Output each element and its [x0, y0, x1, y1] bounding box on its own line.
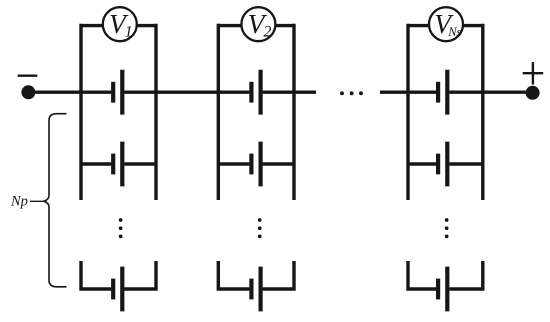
wire bottom stub right column 3	[449, 261, 483, 289]
wire main bus: cell B21 to ellipsis break	[263, 90, 316, 93]
wire right rail column 1	[154, 24, 157, 200]
wire left rail column 1	[79, 24, 82, 200]
battery cell B1Np	[113, 267, 122, 312]
voltmeter V1	[103, 7, 137, 41]
vertical dots column 3	[445, 218, 449, 238]
battery cell B11	[113, 70, 122, 115]
node positive terminal	[526, 86, 540, 100]
battery cell B32	[438, 142, 447, 187]
wire left rail column 3	[406, 24, 409, 200]
battery cell B22	[251, 142, 260, 187]
svg-text:2: 2	[263, 23, 271, 40]
wire main bus: cell B11 to cell B21	[124, 90, 249, 93]
wire row 2 column 3 left	[408, 162, 436, 165]
wire right rail column 2	[292, 24, 295, 200]
wire bottom stub left column 2	[218, 261, 249, 289]
wire top loop column 1	[81, 24, 156, 27]
wire row 2 column 2 right	[263, 162, 294, 165]
battery cell B31	[438, 70, 447, 115]
node negative terminal	[21, 85, 35, 99]
wire row 2 column 3 right	[449, 162, 483, 165]
battery cell B2Np	[251, 267, 260, 312]
vertical dots column 1	[119, 218, 123, 238]
wire bottom stub left column 3	[408, 261, 436, 289]
battery cell B3Np	[438, 267, 447, 312]
label minus sign	[18, 74, 38, 76]
svg-text:Np: Np	[10, 193, 28, 209]
wire left rail column 2	[217, 24, 220, 200]
wire main bus: cell B31 to positive terminal	[449, 90, 532, 93]
wire right rail column 3	[481, 24, 484, 200]
wire row 2 column 2 left	[218, 162, 249, 165]
wire bottom stub right column 2	[263, 261, 294, 289]
wire main bus: ellipsis break to cell B31	[380, 90, 436, 93]
battery cell B12	[113, 142, 122, 187]
wire main bus: negative terminal to cell B11	[28, 90, 111, 93]
voltmeter VNs	[429, 7, 463, 41]
svg-text:1: 1	[125, 23, 133, 40]
wire bottom stub left column 1	[81, 261, 111, 289]
vertical dots column 2	[258, 218, 262, 238]
wire Np pointer dash	[30, 200, 46, 202]
wire bottom stub right column 1	[124, 261, 156, 289]
brace Np extent	[44, 114, 67, 287]
label plus sign	[523, 62, 544, 84]
battery cell B21	[251, 70, 260, 115]
wire row 2 column 1 right	[124, 162, 156, 165]
voltmeter V2	[241, 7, 275, 41]
wire top loop column 2	[218, 24, 294, 27]
wire top loop column 3	[408, 24, 483, 27]
ellipsis series continuation dots	[340, 91, 363, 95]
wire row 2 column 1 left	[81, 162, 111, 165]
svg-text:Ns: Ns	[447, 25, 461, 39]
